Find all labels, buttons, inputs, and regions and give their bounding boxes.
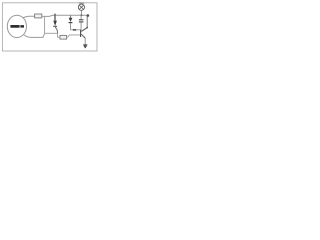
ground (83, 45, 87, 48)
AC source V1 (7, 15, 26, 37)
junction dash (73, 29, 76, 31)
lamp L1 (78, 3, 84, 16)
background (0, 0, 100, 53)
resistor R1 (35, 14, 42, 18)
node after R1 (44, 17, 46, 34)
node rail-collector (87, 14, 90, 17)
wire R2 to base (67, 35, 81, 37)
wire emitter down (84, 38, 86, 45)
wire to R2 (58, 33, 60, 37)
capacitor C1 (79, 15, 84, 29)
wire R1 to rail (42, 15, 55, 16)
wire diode to cap node (71, 29, 81, 31)
wire mid horizontal (45, 32, 58, 34)
transistor Q1 (80, 16, 88, 38)
node lamp-rail (80, 14, 82, 16)
zener D2 (53, 14, 57, 34)
resistor R2 (60, 35, 67, 39)
top rail (55, 14, 88, 16)
wire top from source to R1 (23, 16, 34, 18)
border frame (2, 3, 97, 51)
wire bottom from source (24, 34, 45, 38)
label 230V AC inside source (10, 25, 19, 28)
diode D1 (69, 15, 73, 29)
